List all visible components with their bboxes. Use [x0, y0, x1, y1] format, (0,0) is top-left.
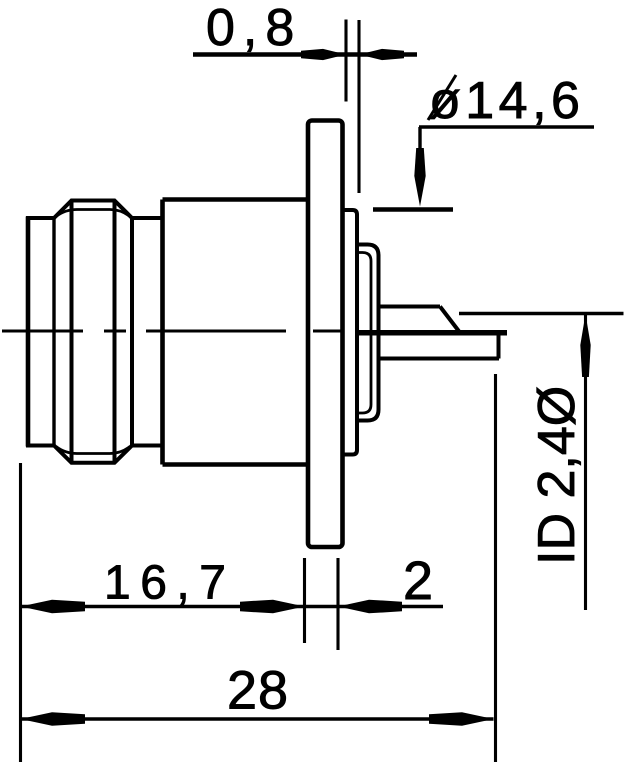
dimension 28 arrow right: [429, 712, 494, 726]
dimension ID 2,40 arrow: [580, 314, 590, 377]
dimension 2 extension line right: [336, 558, 339, 650]
solder blade step chamfer: [440, 307, 460, 333]
insulator bushing outer contour: [357, 245, 379, 421]
coupling nut chamfer inner edge top: [56, 210, 130, 217]
dimension 0,8 arrow left: [301, 49, 346, 60]
flange rear lip (o14.6): [343, 210, 358, 455]
dimension 2 extension line left: [303, 558, 306, 643]
dimension o14,6 arrow: [414, 148, 425, 207]
coupling nut left face: [26, 217, 31, 447]
svg-text:0,8: 0,8: [206, 0, 302, 57]
svg-text:16,7: 16,7: [104, 557, 235, 610]
dimension 16,7 arrow left: [21, 600, 86, 614]
svg-text:28: 28: [227, 661, 289, 721]
coupling nut bottom profile: [26, 446, 163, 463]
solder blade tip top edge with centerline overlap: [356, 330, 507, 336]
coupling nut top profile: [26, 201, 163, 219]
dimension 28 line: [21, 717, 494, 721]
svg-text:ID 2,4Ø: ID 2,4Ø: [528, 386, 586, 565]
dimension 16,7 and 2 line: [21, 605, 444, 609]
coupling nut facet line left: [70, 200, 74, 463]
dimension 28 extension line right: [494, 374, 497, 762]
solder blade bottom edge: [379, 357, 499, 361]
dimension 2 arrow: [338, 600, 402, 614]
dimension 0,8 extension line left: [344, 20, 347, 102]
solder blade top edge: [379, 305, 440, 309]
solder blade tip face: [497, 332, 501, 359]
dimension 0,8 line: [193, 52, 417, 57]
dimension 28 arrow left: [21, 712, 86, 726]
o14.6 target edge line: [373, 207, 453, 212]
insulator bushing inner contour: [357, 253, 371, 414]
coupling nut lip boundary: [52, 218, 55, 446]
coupling nut right face: [130, 218, 134, 446]
coupling nut facet line right: [113, 200, 117, 463]
dimension ID 2,40 vertical line: [584, 314, 587, 611]
svg-text:2: 2: [403, 551, 433, 611]
main cylinder body: [163, 200, 309, 465]
mounting flange: [308, 121, 343, 548]
dimension 16,7 / 2 extension line A: [19, 463, 22, 762]
dimension o14,6 leader line: [419, 127, 594, 152]
dimension 0,8 extension line right: [357, 20, 360, 193]
centerline: [2, 329, 341, 332]
dimension ID 2,40 extension line: [459, 312, 624, 315]
dimension 16,7 arrow right: [240, 600, 305, 614]
dimension 0,8 arrow right: [359, 49, 404, 60]
coupling nut chamfer inner edge bottom: [56, 447, 130, 454]
